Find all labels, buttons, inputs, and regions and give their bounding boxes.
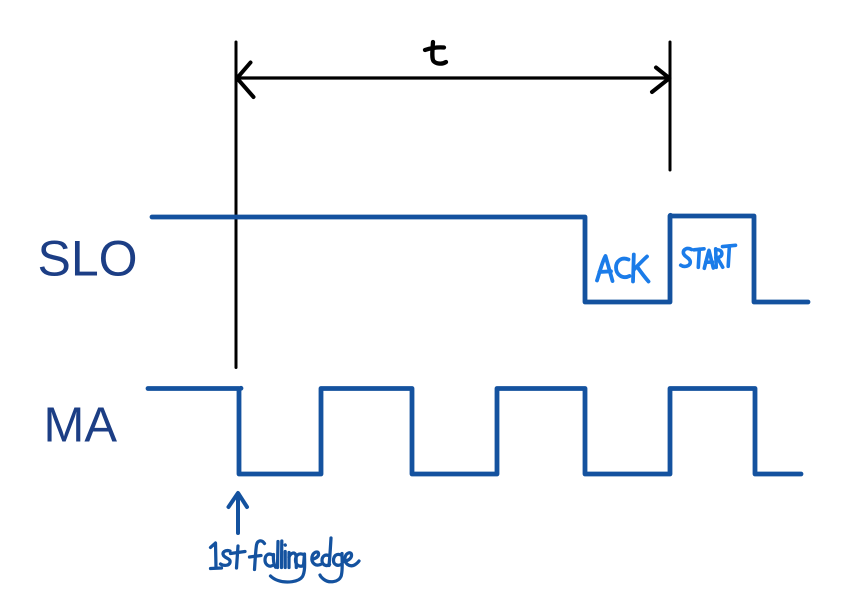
svg-text:SLO: SLO — [38, 231, 138, 287]
t — [237, 546, 239, 568]
1 — [211, 543, 217, 568]
n — [287, 553, 290, 568]
d — [322, 555, 330, 565]
right cursor vertical line — [669, 42, 672, 170]
e — [312, 552, 321, 565]
corner nub at SLO start pulse rise — [668, 213, 673, 218]
START handwritten label — [681, 245, 736, 268]
left arrowhead — [237, 63, 254, 98]
e — [345, 553, 360, 566]
g of falling, with long tail — [271, 554, 305, 582]
SLO waveform — [152, 216, 808, 302]
s — [221, 551, 231, 566]
f — [255, 541, 265, 570]
measurement arrow shaft — [238, 76, 668, 79]
right arrowhead — [652, 68, 670, 93]
handwritten: 1st falling edge — [211, 538, 360, 582]
svg-text:MA: MA — [44, 399, 118, 453]
a — [265, 554, 273, 566]
MA waveform — [148, 389, 801, 475]
ACK handwritten label — [597, 255, 649, 282]
g of edge — [334, 554, 342, 565]
l — [276, 542, 280, 568]
up arrow (1st falling edge pointer) — [229, 493, 248, 533]
i — [284, 552, 287, 568]
left cursor vertical line — [235, 42, 238, 368]
l — [280, 541, 284, 568]
corner nub at MA first falling edge — [239, 386, 244, 391]
label t — [425, 42, 446, 64]
